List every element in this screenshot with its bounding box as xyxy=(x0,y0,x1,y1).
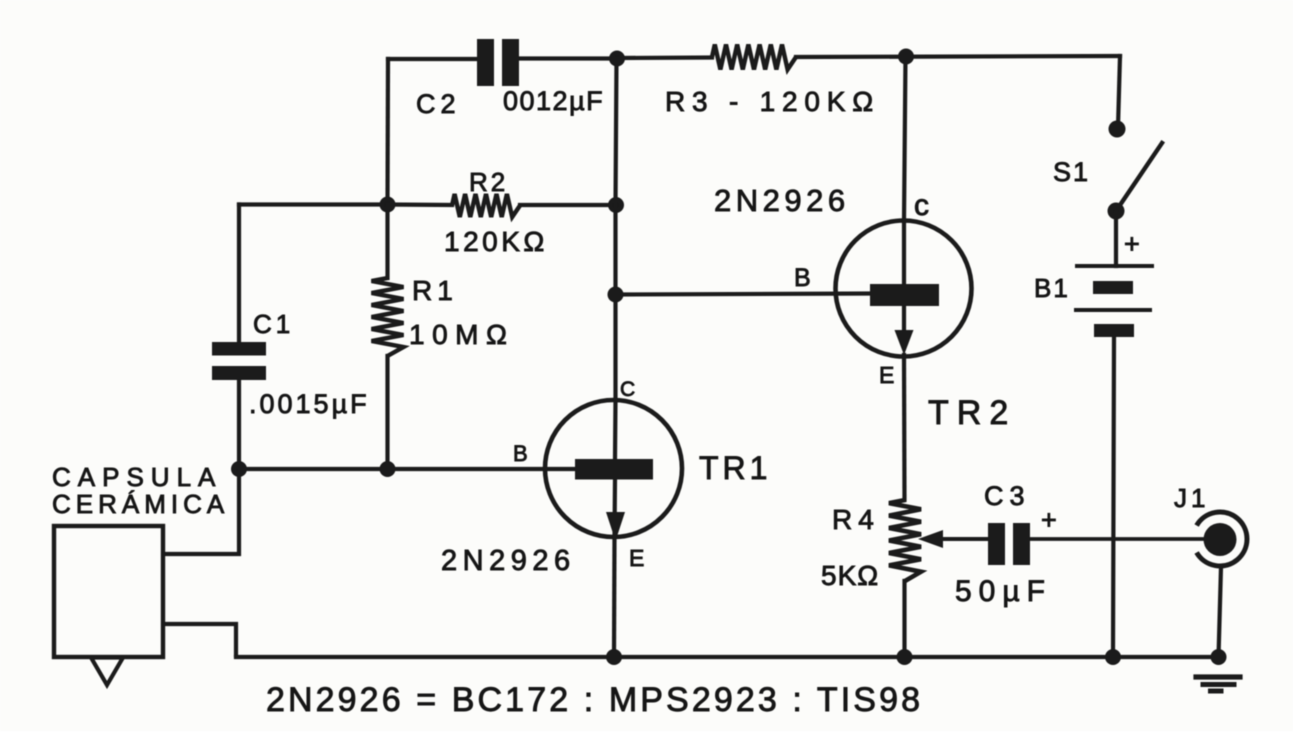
wire row2 left segment to C1 corner xyxy=(239,202,388,206)
svg-text:CAPSULA: CAPSULA xyxy=(52,462,222,492)
wire right drop to switch S1 xyxy=(1118,56,1120,127)
svg-text:2N2926: 2N2926 xyxy=(441,545,576,577)
svg-text:C3: C3 xyxy=(984,481,1031,511)
wire S1 to battery B1 xyxy=(1114,211,1118,266)
svg-text:R1: R1 xyxy=(412,275,458,306)
wire top rail C2 to node xyxy=(518,56,617,60)
svg-text:+: + xyxy=(1041,505,1057,535)
wire top rail left segment (C2 branch) xyxy=(388,57,477,61)
bottom ground rail xyxy=(236,655,1218,659)
resistor R2 xyxy=(452,194,520,217)
battery B1 xyxy=(1076,266,1152,337)
svg-text:B1: B1 xyxy=(1034,273,1070,303)
svg-text:2N2926 = BC172 : MPS2923 : TIS: 2N2926 = BC172 : MPS2923 : TIS98 xyxy=(266,681,923,719)
node R2 right on center column xyxy=(608,197,624,213)
wire C1 bottom to base node xyxy=(237,380,241,469)
svg-text:C2: C2 xyxy=(416,89,461,119)
svg-text:5KΩ: 5KΩ xyxy=(821,560,879,591)
svg-text:R2: R2 xyxy=(469,167,508,197)
ceramic capsule (microphone) box xyxy=(54,526,163,657)
transistor TR1 xyxy=(545,400,682,541)
svg-text:B: B xyxy=(794,264,811,292)
svg-text:E: E xyxy=(629,545,644,571)
node ground junction xyxy=(1211,649,1227,665)
node C1 / capsule / TR1 base xyxy=(231,461,247,477)
svg-text:50µF: 50µF xyxy=(955,575,1052,608)
wiper arrow of R4 xyxy=(918,530,988,548)
svg-text:+: + xyxy=(1124,229,1140,259)
wire C3 to jack J1 xyxy=(1030,537,1203,541)
wire TR2 collector up to top rail xyxy=(904,57,906,222)
svg-text:B: B xyxy=(513,441,528,466)
node R4 bottom on rail xyxy=(897,649,913,665)
node battery minus on rail xyxy=(1105,649,1121,665)
capsule bottom triangle terminal xyxy=(91,658,123,686)
capacitor C2 xyxy=(477,39,519,86)
capacitor C1 xyxy=(212,342,266,380)
wire capsule bottom terminal to ground rail xyxy=(163,624,236,657)
node top center junction xyxy=(609,51,625,67)
svg-text:10MΩ: 10MΩ xyxy=(409,319,514,350)
svg-text:E: E xyxy=(879,362,894,388)
svg-text:C: C xyxy=(620,378,635,401)
svg-text:J1: J1 xyxy=(1174,483,1209,513)
svg-text:.0015µF: .0015µF xyxy=(249,389,370,419)
wire TR2 emitter down to R4 xyxy=(902,355,907,500)
resistor R3 xyxy=(712,45,796,70)
node R1 bottom on base wire xyxy=(380,461,396,477)
switch S1 xyxy=(1108,121,1163,220)
transistor TR2 xyxy=(836,221,972,357)
jack J1 xyxy=(1197,512,1247,566)
svg-text:C1: C1 xyxy=(253,309,294,339)
wire R2 right lead to center column xyxy=(520,203,616,207)
wire R2 left lead xyxy=(388,202,453,207)
svg-text:0012µF: 0012µF xyxy=(503,86,604,116)
wire C1 branch vertical top xyxy=(237,205,241,343)
wire capsule top terminal to base node xyxy=(163,469,239,554)
ground symbol xyxy=(1196,677,1240,691)
node TR2 base tap on center column xyxy=(608,287,624,303)
wire center column vertical (C2 node to TR2 base node to TR1 to bottom rail) xyxy=(616,59,617,206)
wire left vertical C2 branch down to R2 row xyxy=(385,59,390,204)
wire battery negative down to ground rail xyxy=(1113,337,1114,657)
wire J1 sleeve down to ground xyxy=(1219,567,1222,657)
wire R1 bottom lead xyxy=(385,356,389,469)
wire top rail R3 to right corner xyxy=(796,56,1120,57)
wire TR1 base row xyxy=(239,467,578,471)
wire R4 bottom to rail xyxy=(902,581,906,657)
capacitor C3 xyxy=(988,523,1030,565)
resistor R1 xyxy=(372,278,404,356)
wire R1 top lead xyxy=(385,205,389,279)
wire top rail node to R3 xyxy=(617,55,712,60)
node TR1 emitter on rail xyxy=(606,649,622,665)
svg-text:R3 - 120KΩ: R3 - 120KΩ xyxy=(665,86,880,117)
svg-text:TR2: TR2 xyxy=(928,394,1016,432)
svg-text:c: c xyxy=(914,189,929,222)
svg-text:2N2926: 2N2926 xyxy=(714,183,850,218)
wire TR2 base row xyxy=(616,294,873,295)
node R2 left / R1 top xyxy=(380,197,396,213)
potentiometer R4 xyxy=(889,500,921,581)
node top right at TR2 collector column xyxy=(898,49,914,65)
svg-text:TR1: TR1 xyxy=(699,450,771,486)
svg-text:S1: S1 xyxy=(1053,157,1090,187)
svg-text:120KΩ: 120KΩ xyxy=(444,226,548,257)
svg-text:R4: R4 xyxy=(832,504,880,535)
svg-text:CERÁMICA: CERÁMICA xyxy=(52,489,229,519)
